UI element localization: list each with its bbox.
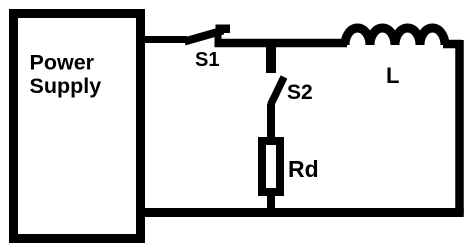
svg-text:S1: S1 (195, 49, 219, 71)
wire from S1 to inductor (215, 39, 348, 48)
power supply box (14, 14, 141, 239)
svg-text:Power: Power (30, 51, 95, 75)
switch S1 tip contact (216, 25, 231, 34)
wire right vertical (455, 40, 464, 215)
switch S1 right terminal stub (215, 29, 222, 44)
switch S2 blade (271, 77, 285, 105)
switch S1 blade (185, 31, 224, 42)
wire top from box to S1 (140, 36, 187, 43)
resistor Rd (262, 141, 280, 192)
wire resistor to bottom (267, 192, 275, 214)
svg-text:Rd: Rd (288, 156, 319, 182)
node S2 tap / wire down (266, 43, 276, 73)
wire inductor to right side (443, 40, 462, 49)
wire S2 to resistor (267, 104, 275, 141)
svg-text:Supply: Supply (30, 74, 102, 98)
inductor L (345, 28, 445, 45)
wire bottom (138, 208, 464, 217)
svg-text:S2: S2 (287, 81, 313, 104)
svg-text:L: L (386, 63, 399, 88)
